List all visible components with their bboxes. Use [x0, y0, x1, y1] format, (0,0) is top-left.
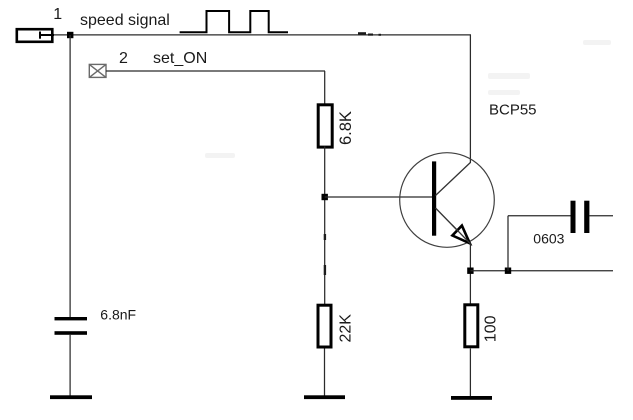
junction at base divider — [322, 194, 328, 200]
svg-text:6.8K: 6.8K — [337, 111, 355, 145]
transistor Q1 BCP55 — [400, 153, 495, 248]
svg-text:BCP55: BCP55 — [489, 102, 537, 119]
emitter arrow — [452, 226, 469, 244]
capacitor 0603 plate left — [571, 201, 576, 233]
wire: capacitor right plate to edge — [589, 215, 613, 217]
junction at emitter node — [467, 268, 473, 274]
svg-text:2: 2 — [119, 50, 128, 67]
base bar — [432, 161, 436, 235]
svg-text:1: 1 — [53, 6, 62, 23]
wire: connector to collector corner (net speed signal) — [54, 34, 471, 36]
waveform symbol (square wave) — [180, 11, 288, 32]
faint ghost smudges — [205, 40, 611, 158]
junction at capacitor branch — [505, 268, 511, 274]
wire: up-corner right to capacitor left plate — [508, 215, 571, 217]
connector pin 1 — [17, 29, 54, 42]
pin symbol set_ON (crossed box) — [89, 64, 106, 77]
wire artifact segments — [324, 234, 326, 240]
wire: emitter down to junction and resistor 100 — [469, 244, 471, 305]
svg-text:speed signal: speed signal — [80, 12, 170, 29]
svg-text:set_ON: set_ON — [153, 50, 207, 67]
resistor 22K — [318, 305, 331, 347]
capacitor 0603 plate right — [584, 201, 589, 233]
resistor 6.8K — [318, 105, 332, 147]
emitter diagonal — [436, 208, 471, 244]
svg-text:0603: 0603 — [533, 231, 564, 247]
ground under 100 — [451, 396, 492, 400]
collector diagonal — [436, 163, 471, 196]
ground under 6.8nF — [50, 395, 92, 399]
transistor body circle — [400, 153, 495, 248]
emitter diagonal overlay — [452, 225, 470, 244]
wire: emitter node to right edge — [470, 270, 613, 272]
wire: base junction to transistor base — [325, 196, 433, 198]
svg-text:100: 100 — [483, 315, 500, 342]
wire: junction up to capacitor 0603 — [507, 216, 509, 271]
wire: capacitor to ground — [69, 335, 71, 396]
wire: set_ON to corner — [106, 70, 325, 72]
capacitor 6.8nF plate top — [55, 317, 88, 320]
wire: corner down to collector — [469, 35, 471, 163]
wire: 6.8K bottom to base junction and on to 22K — [324, 147, 326, 305]
junction at pin1 / vertical branch — [67, 32, 73, 38]
smudge marks on wire — [358, 32, 381, 36]
wire: junction down to capacitor 6.8nF — [69, 35, 71, 317]
ground under 22K — [304, 395, 345, 399]
svg-text:22K: 22K — [338, 314, 355, 343]
resistor 100 — [465, 305, 478, 347]
wire: corner down to resistor R 6.8K — [324, 71, 326, 104]
svg-text:6.8nF: 6.8nF — [100, 307, 136, 323]
capacitor 6.8nF plate bottom — [55, 331, 88, 335]
wire: 22K to ground — [324, 349, 326, 397]
wire: 100 to ground — [469, 349, 471, 397]
